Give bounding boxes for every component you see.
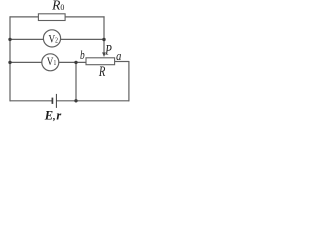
svg-text:R: R xyxy=(98,63,106,79)
wire right vertical from top corner down to node P junction xyxy=(103,16,105,39)
wire left vertical xyxy=(9,16,11,101)
junction dot on bottom wire xyxy=(74,99,77,102)
wire vertical from node b down to bottom wire xyxy=(75,62,77,101)
wire V2 branch right xyxy=(61,38,105,40)
rheostat R track xyxy=(86,58,115,65)
svg-text:P: P xyxy=(104,41,111,58)
wire V1 branch right through node b to rheostat xyxy=(59,61,87,63)
wire rheostat terminal a to right border xyxy=(114,61,129,63)
voltmeter V1 xyxy=(42,54,59,71)
junction dot on left wire at V1 branch xyxy=(8,61,11,64)
rheostat wiper P arrow xyxy=(102,40,106,58)
voltmeter V2 xyxy=(43,30,60,47)
junction dot on left wire at V2 branch xyxy=(8,38,11,41)
wire top-left to R0 xyxy=(10,16,39,18)
battery negative plate (short thick) xyxy=(51,98,53,104)
svg-text:b: b xyxy=(80,49,85,63)
wire V1 branch left xyxy=(10,61,42,63)
wire V2 branch left xyxy=(10,38,44,40)
junction dot node b xyxy=(74,61,77,64)
svg-text:E,r: E,r xyxy=(44,109,62,123)
wire right vertical xyxy=(128,61,130,101)
wire R0 to top-right corner xyxy=(65,16,105,18)
wire bottom right segment from battery xyxy=(56,100,129,102)
svg-text:a: a xyxy=(116,50,121,63)
resistor R0 xyxy=(38,14,65,21)
junction dot node P top of wiper xyxy=(102,38,105,41)
wire bottom left segment to battery xyxy=(10,100,52,102)
battery positive plate (long thin) xyxy=(55,94,57,108)
